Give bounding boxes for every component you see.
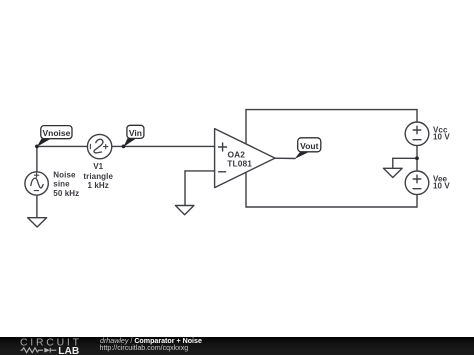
svg-text:sine: sine [53,180,70,189]
wire bottom rail [246,206,417,208]
net flag Vout [295,138,321,159]
wire op-amp - input horizontal [185,170,215,172]
voltage source Vcc [405,122,429,146]
footer title text [100,338,202,345]
svg-text:Vin: Vin [129,128,142,138]
svg-text:V1: V1 [93,162,103,171]
ground (noise source) [28,218,47,227]
wire top rail [246,109,417,111]
svg-text:LAB: LAB [58,346,79,355]
wire Vee bottom down [416,195,418,207]
wire op-amp - input vertical to ground [184,171,186,206]
net flag Vin [124,125,144,147]
svg-text:50 kHz: 50 kHz [53,189,79,198]
svg-text:10 V: 10 V [433,182,450,191]
node Vnoise [35,145,39,149]
wire noise source bottom to ground [36,195,38,218]
wire op-amp output [275,157,295,159]
wire op-amp V+ pin up [245,110,247,144]
wire Vcc bottom to Vee top [416,146,418,171]
ground (op-amp - input) [175,206,194,215]
node supply [415,156,419,160]
wire top rail down to Vcc [416,110,418,122]
svg-text:1 kHz: 1 kHz [87,181,108,190]
label V1 triangle 1 kHz [83,162,113,190]
CircuitLab logo [0,337,95,355]
net flag Vnoise [37,126,72,147]
svg-text:TL081: TL081 [227,159,252,169]
ground (supply) [383,168,402,177]
voltage source Vee [405,171,429,195]
label Vcc 10 V [433,125,450,141]
noise source sine 50kHz [25,172,48,195]
svg-text:Noise: Noise [53,170,76,179]
wire op-amp V- pin down [245,172,247,207]
svg-text:Vout: Vout [300,141,318,151]
svg-text:Vnoise: Vnoise [42,128,70,138]
op-amp OA2 TL081 [215,129,275,188]
wire supply ground vertical [392,158,394,168]
svg-text:10 V: 10 V [433,133,450,142]
voltage source V1 triangle [87,134,111,158]
node Vin [122,145,126,149]
label Vee 10 V [433,174,450,190]
label Noise sine 50 kHz [53,170,79,198]
svg-text:triangle: triangle [83,172,113,181]
footer url text [100,344,189,352]
wire node Vnoise to noise source top [36,146,38,172]
wire V1 right terminal to op-amp + input [112,145,215,147]
footer bar [0,337,474,355]
wire supply node to ground horizontal [393,157,417,159]
wire node Vnoise to V1 left terminal [37,145,88,147]
